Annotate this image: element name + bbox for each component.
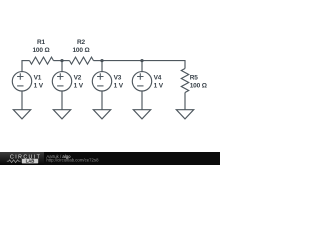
wire rail V1 to R1 — [21, 60, 29, 62]
logo LAB box — [22, 159, 38, 164]
voltage source V2 — [52, 72, 71, 91]
wire rail node2 to R2 — [62, 60, 70, 62]
voltage source V1 — [12, 72, 31, 91]
svg-text:R2: R2 — [77, 39, 86, 46]
ground V2 — [53, 110, 70, 119]
wire V3 bottom — [101, 91, 103, 110]
wire V1 bottom — [21, 91, 23, 110]
ground V3 — [93, 110, 110, 119]
wire node3 to node4 — [102, 60, 142, 62]
svg-text:100 Ω: 100 Ω — [72, 47, 89, 54]
wire R1 to node2 — [54, 60, 63, 62]
wire V3 riser — [101, 61, 103, 72]
svg-text:R5: R5 — [190, 75, 199, 82]
wire V2 riser — [61, 61, 63, 72]
ground V4 — [133, 110, 150, 119]
svg-text:http://circuitlab.com/ce72s8: http://circuitlab.com/ce72s8 — [46, 158, 99, 163]
wire V1 riser — [21, 61, 23, 72]
node N3 junction — [100, 59, 103, 62]
svg-text:100 Ω: 100 Ω — [32, 47, 49, 54]
wire V4 riser — [141, 61, 143, 72]
ground V1 — [13, 110, 30, 119]
resistor R5 — [181, 69, 188, 93]
logo resistor zigzag — [7, 160, 21, 163]
svg-text:1 V: 1 V — [114, 82, 124, 89]
svg-text:V1: V1 — [34, 75, 42, 82]
svg-text:V2: V2 — [74, 75, 82, 82]
wire V4 bottom — [141, 91, 143, 110]
svg-text:R1: R1 — [37, 39, 46, 46]
resistor R1 — [30, 57, 54, 64]
voltage source V4 — [132, 72, 151, 91]
wire V2 bottom — [61, 91, 63, 110]
svg-text:V4: V4 — [154, 75, 162, 82]
svg-text:LAB: LAB — [26, 159, 35, 164]
resistor R2 — [70, 57, 94, 64]
svg-text:100 Ω: 100 Ω — [190, 82, 207, 89]
svg-text:1 V: 1 V — [154, 82, 164, 89]
wire R2 to node3 — [94, 60, 103, 62]
svg-text:V3: V3 — [114, 75, 122, 82]
ground R5 — [176, 110, 193, 119]
node N4 junction — [140, 59, 143, 62]
wire node4 to R5 top — [142, 61, 185, 69]
voltage source V3 — [92, 72, 111, 91]
node N2 junction — [60, 59, 63, 62]
svg-text:1 V: 1 V — [34, 82, 44, 89]
watermark bar — [0, 152, 220, 165]
svg-text:1 V: 1 V — [74, 82, 84, 89]
wire R5 bottom — [184, 93, 186, 110]
